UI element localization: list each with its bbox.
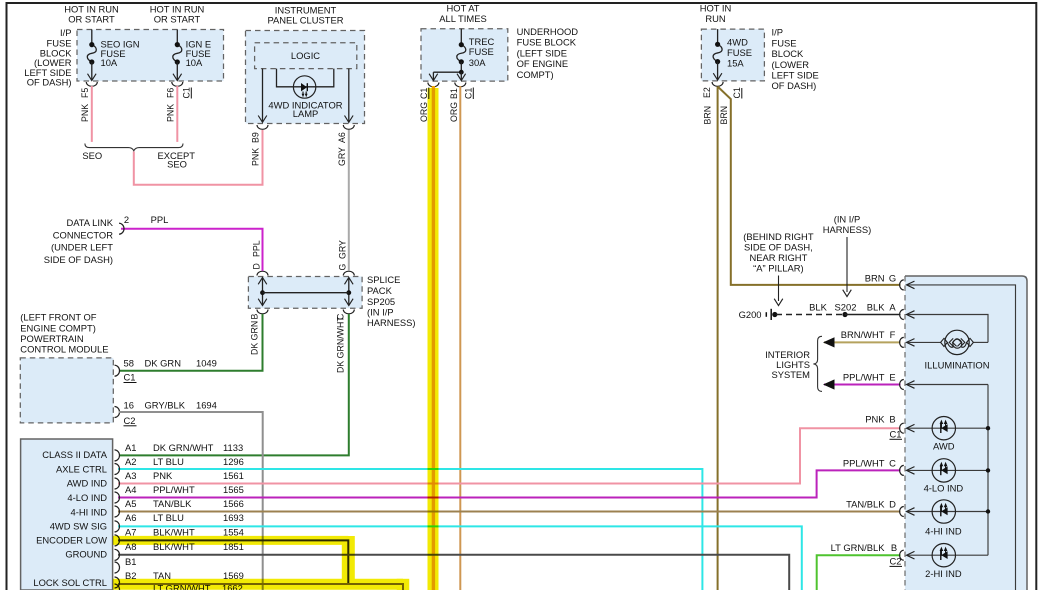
svg-text:D: D (889, 499, 896, 510)
svg-text:FUSE: FUSE (469, 46, 494, 57)
cluster logic output wire right (348, 69, 350, 123)
svg-text:A3: A3 (125, 470, 136, 481)
illumination lamp right lead (973, 341, 988, 343)
connector TCCM bottom pin (115, 584, 120, 590)
wire TAN/BLK A5 to switch D (118, 511, 901, 513)
connector TCCM pin A7 (115, 535, 120, 546)
SP205 connector D (top left) (257, 271, 268, 275)
connector E2/C1 (4WD fuse) (712, 82, 723, 86)
switch connector G (900, 280, 904, 290)
connector pin 2 (DLC) (119, 223, 124, 234)
svg-text:HARNESS): HARNESS) (367, 317, 415, 328)
svg-text:(LEFT FRONT OF: (LEFT FRONT OF (20, 312, 96, 323)
logic box (255, 43, 357, 69)
fuse IGN E 10A (176, 30, 178, 45)
svg-text:LT BLU: LT BLU (153, 456, 184, 467)
svg-text:ORG: ORG (449, 102, 459, 122)
svg-text:GROUND: GROUND (65, 549, 107, 560)
wire BLK/WHT A7 (highlighted) (118, 540, 348, 584)
switch inner wire E chain (907, 384, 988, 386)
svg-text:F5: F5 (80, 88, 90, 98)
svg-text:4-LO IND: 4-LO IND (924, 483, 964, 494)
wire BLK/WHT A8 (ground) (118, 555, 789, 590)
svg-text:1049: 1049 (196, 357, 217, 368)
svg-text:BLK/WHT: BLK/WHT (153, 526, 195, 537)
connector B9 (cluster) (257, 125, 268, 129)
svg-text:BRN: BRN (703, 106, 713, 125)
svg-text:BLK: BLK (809, 301, 827, 312)
fuse TREC 30A (460, 29, 462, 45)
connector C1 (underhood fuse block) (428, 83, 439, 87)
svg-text:PNK: PNK (80, 104, 90, 122)
connector B1/C1 (underhood fuse block) (455, 83, 466, 87)
svg-text:10A: 10A (101, 57, 118, 68)
svg-text:2: 2 (124, 214, 129, 225)
svg-text:OF ENGINE: OF ENGINE (517, 58, 569, 69)
svg-text:I/P: I/P (772, 27, 783, 38)
svg-text:“A” PILLAR): “A” PILLAR) (753, 263, 804, 274)
svg-text:BRN/WHT: BRN/WHT (841, 329, 885, 340)
svg-text:4-HI IND: 4-HI IND (925, 526, 962, 537)
svg-text:OF DASH): OF DASH) (772, 80, 817, 91)
svg-text:G: G (889, 273, 896, 284)
indicator LED AWD (907, 427, 988, 429)
svg-text:LOCK SOL CTRL: LOCK SOL CTRL (33, 577, 107, 588)
switch inner wire A to illumination (907, 315, 988, 343)
switch inner wire G (907, 285, 1016, 590)
instrument panel cluster box (246, 31, 365, 124)
wire LT BLU A6 (4wd sw sig) (118, 526, 802, 590)
SP205 internal node right (348, 278, 350, 306)
svg-text:PPL/WHT: PPL/WHT (153, 484, 195, 495)
ground G200 symbol (765, 312, 767, 317)
svg-text:GRY/BLK: GRY/BLK (145, 399, 186, 410)
splice S202 (842, 312, 847, 317)
wire DK GRN SP205 B to PCM 58 (119, 314, 263, 371)
svg-text:C1: C1 (124, 372, 136, 383)
svg-text:BRN: BRN (719, 106, 729, 125)
svg-text:C2: C2 (890, 555, 902, 566)
svg-text:POWERTRAIN: POWERTRAIN (20, 333, 83, 344)
svg-text:HARNESS): HARNESS) (823, 224, 871, 235)
svg-text:A6: A6 (337, 132, 347, 143)
svg-text:SP205: SP205 (367, 296, 395, 307)
svg-text:CONTROL MODULE: CONTROL MODULE (20, 343, 108, 354)
svg-text:PPL: PPL (252, 240, 262, 257)
svg-text:LT GRN/BLK: LT GRN/BLK (831, 542, 886, 553)
svg-text:C2: C2 (124, 415, 136, 426)
svg-text:COMPT): COMPT) (517, 69, 554, 80)
svg-text:SPLICE: SPLICE (367, 274, 400, 285)
wire BRN/WHT F (interior lights) (824, 341, 901, 343)
svg-text:BLOCK: BLOCK (772, 48, 805, 59)
connector A6 (cluster) (343, 125, 354, 129)
connector TCCM pin B2 (115, 577, 120, 588)
svg-text:HOT IN: HOT IN (700, 3, 732, 14)
svg-text:AWD IND: AWD IND (67, 477, 108, 488)
wire DK GRN/WHT SP205 C to TCCM A1 (119, 314, 349, 455)
svg-text:F6: F6 (166, 88, 176, 98)
svg-text:B1: B1 (125, 556, 136, 567)
wire LT BLU A2 (axle ctrl) (118, 469, 702, 590)
svg-text:(IN I/P: (IN I/P (367, 307, 394, 318)
svg-text:PPL: PPL (151, 214, 169, 225)
svg-text:E2: E2 (702, 87, 712, 98)
svg-text:HOT IN RUN: HOT IN RUN (64, 3, 119, 14)
svg-text:PANEL CLUSTER: PANEL CLUSTER (267, 15, 343, 26)
svg-text:AWD: AWD (933, 441, 955, 452)
pointer arrow to G200 (778, 276, 780, 302)
wire BRN C1 to switch G (718, 87, 901, 285)
connector TCCM pin B1 (115, 562, 120, 573)
4WD indicator lamp LED (293, 76, 315, 98)
svg-text:AXLE CTRL: AXLE CTRL (56, 463, 107, 474)
highlight BLK/WHT 1554 path (113, 536, 403, 590)
svg-text:C1: C1 (182, 87, 192, 98)
svg-text:A: A (889, 301, 896, 312)
svg-text:NEAR RIGHT: NEAR RIGHT (749, 252, 807, 263)
svg-text:A6: A6 (125, 512, 136, 523)
svg-text:LEFT SIDE: LEFT SIDE (772, 69, 819, 80)
pointer arrow to S202 (846, 237, 848, 292)
svg-text:LOGIC: LOGIC (291, 50, 320, 61)
svg-text:UNDERHOOD: UNDERHOOD (517, 26, 579, 37)
svg-text:A5: A5 (125, 498, 136, 509)
wire LT GRN/BLK switch B/C2 (817, 555, 901, 590)
switch connector B/C2 (900, 550, 904, 560)
indicator LED 4-LO IND (907, 469, 988, 471)
svg-text:1133: 1133 (223, 442, 243, 453)
indicator LED 2-HI IND (907, 554, 988, 556)
svg-text:HOT IN RUN: HOT IN RUN (150, 3, 205, 14)
wire PPL/WHT A4 to switch C (118, 470, 901, 497)
switch connector D (900, 507, 904, 517)
svg-text:G: G (338, 264, 348, 271)
svg-text:B: B (889, 413, 895, 424)
svg-text:1693: 1693 (223, 512, 244, 523)
svg-text:DK GRN/WHT: DK GRN/WHT (153, 442, 214, 453)
svg-text:SEO: SEO (82, 150, 102, 161)
svg-text:ENCODER LOW: ENCODER LOW (36, 535, 107, 546)
svg-text:A2: A2 (125, 456, 136, 467)
wire PNK from fuse F5 (91, 86, 93, 142)
switch connector B (900, 423, 904, 433)
SP205 internal node left (262, 278, 264, 306)
connector TCCM pin A2 (115, 464, 120, 475)
wire ORG B1/C1 (459, 86, 461, 590)
switch connector A (900, 310, 904, 320)
svg-text:D: D (252, 263, 262, 269)
svg-text:OR START: OR START (154, 14, 201, 25)
svg-text:4-HI IND: 4-HI IND (71, 506, 108, 517)
svg-text:C1: C1 (732, 87, 742, 98)
svg-text:FUSE: FUSE (772, 37, 797, 48)
svg-text:C1: C1 (464, 88, 474, 99)
svg-text:30A: 30A (469, 57, 486, 68)
svg-text:PNK: PNK (166, 104, 176, 122)
connector PCM pin 58 C1 (115, 365, 120, 376)
brace SEO / EXCEPT SEO (85, 144, 183, 151)
svg-text:1694: 1694 (196, 399, 217, 410)
svg-text:4-LO IND: 4-LO IND (67, 492, 107, 503)
transfer case control module connector box (21, 439, 113, 590)
svg-text:G200: G200 (739, 309, 762, 320)
SP205 connector C (bottom right) (343, 310, 354, 314)
4WD indicator lamp bracket (277, 69, 334, 87)
svg-text:16: 16 (124, 399, 134, 410)
connector F6/C1 (I/P fuse block) (172, 82, 183, 86)
svg-text:FUSE: FUSE (727, 47, 752, 58)
wire PNK to cluster B9 (134, 130, 263, 185)
switch connector E (900, 380, 904, 390)
svg-text:B: B (250, 314, 260, 320)
I/P fuse block box (top left) (77, 30, 224, 82)
wire PPL/WHT E (interior lights) (824, 384, 901, 386)
transfer case shift control switch box (905, 276, 1027, 590)
svg-text:BRN: BRN (865, 273, 885, 284)
svg-text:B: B (891, 542, 897, 553)
svg-text:CONNECTOR: CONNECTOR (53, 229, 113, 240)
svg-text:(UNDER LEFT: (UNDER LEFT (51, 242, 113, 253)
svg-text:15A: 15A (727, 58, 744, 69)
connector PCM pin 16 C2 (115, 407, 120, 418)
underhood fuse block box (421, 29, 508, 81)
indicator LED 4-HI IND (907, 511, 988, 513)
svg-text:B1: B1 (449, 88, 459, 99)
svg-text:SIDE OF DASH,: SIDE OF DASH, (744, 242, 813, 253)
svg-text:PPL/WHT: PPL/WHT (843, 371, 885, 382)
svg-text:A1: A1 (125, 442, 136, 453)
SP205 connector B (bottom left) (257, 310, 268, 314)
svg-text:1565: 1565 (223, 484, 244, 495)
svg-text:HOT AT: HOT AT (447, 3, 480, 14)
illumination lamp (945, 330, 969, 354)
svg-text:OR START: OR START (68, 14, 115, 25)
svg-text:58: 58 (124, 357, 134, 368)
svg-text:GRY: GRY (338, 240, 348, 259)
svg-text:(IN I/P: (IN I/P (834, 213, 861, 224)
svg-text:PPL/WHT: PPL/WHT (843, 457, 885, 468)
svg-text:I/P: I/P (60, 27, 71, 38)
connector TCCM pin A6 (115, 521, 120, 532)
switch inner wire F to illumination (907, 341, 941, 343)
svg-text:DK GRN: DK GRN (250, 321, 260, 355)
arrow interior lights E (823, 379, 835, 389)
SP205 connector G (top right) (343, 271, 354, 275)
svg-text:PNK: PNK (153, 470, 173, 481)
svg-text:PACK: PACK (367, 285, 393, 296)
connector TCCM pin A8 (115, 549, 120, 560)
svg-text:(LEFT SIDE: (LEFT SIDE (517, 47, 567, 58)
wire BLK S202 to switch A (845, 314, 901, 316)
svg-text:LT BLU: LT BLU (153, 512, 184, 523)
svg-text:LAMP: LAMP (293, 108, 319, 119)
svg-text:C: C (889, 457, 896, 468)
svg-text:SIDE OF DASH): SIDE OF DASH) (44, 254, 113, 265)
wire PNK A3 to switch B (118, 428, 901, 483)
svg-text:(BEHIND RIGHT: (BEHIND RIGHT (743, 231, 814, 242)
svg-text:ENGINE COMPT): ENGINE COMPT) (20, 322, 96, 333)
connector TCCM pin A3 (115, 478, 120, 489)
switch LED chain vertical (987, 385, 989, 556)
brace interior lights system (813, 336, 822, 391)
wire PNK from fuse F6 (176, 86, 178, 142)
wire TAN B2 (highlighted) (118, 584, 403, 590)
svg-text:10A: 10A (186, 57, 203, 68)
svg-text:ALL TIMES: ALL TIMES (439, 13, 486, 24)
connector F5 (I/P fuse block) (86, 82, 97, 86)
svg-text:TAN/BLK: TAN/BLK (153, 498, 192, 509)
svg-text:TAN/BLK: TAN/BLK (846, 499, 885, 510)
svg-text:DATA LINK: DATA LINK (66, 217, 113, 228)
svg-text:DK GRN: DK GRN (145, 357, 181, 368)
wire GRY cluster A6 to SP205 G (348, 130, 350, 271)
fuse SEO IGN 10A (91, 30, 93, 45)
switch connector F (900, 337, 904, 347)
svg-text:B9: B9 (251, 132, 261, 143)
svg-text:PNK: PNK (865, 413, 885, 424)
svg-text:E: E (889, 371, 895, 382)
svg-text:A4: A4 (125, 484, 136, 495)
svg-text:PNK: PNK (251, 148, 261, 166)
svg-text:RUN: RUN (705, 13, 725, 24)
highlight ORG wire (428, 88, 439, 590)
svg-text:1566: 1566 (223, 498, 244, 509)
fuse 4WD 15A (717, 29, 719, 44)
svg-text:F: F (890, 329, 896, 340)
svg-text:INSTRUMENT: INSTRUMENT (275, 4, 337, 15)
connector TCCM pin A5 (115, 506, 120, 517)
SP205 internal bus wire (263, 292, 349, 294)
svg-text:OF DASH): OF DASH) (27, 77, 72, 88)
connector TCCM pin A4 (115, 492, 120, 503)
svg-text:1296: 1296 (223, 456, 244, 467)
svg-text:1561: 1561 (223, 470, 244, 481)
svg-text:S202: S202 (835, 301, 857, 312)
svg-text:CLASS II DATA: CLASS II DATA (42, 449, 108, 460)
wire BRN E2 (717, 87, 719, 590)
wire BLK G200 to S202 (dashed) (776, 314, 845, 316)
wire ORG C1 (hot at all times, highlighted) (432, 86, 435, 590)
I/P fuse block box (4WD fuse) (701, 29, 764, 81)
svg-text:SEO: SEO (167, 159, 187, 170)
cluster logic output wire left (262, 69, 264, 123)
svg-text:BLK: BLK (867, 301, 885, 312)
svg-text:2-HI IND: 2-HI IND (925, 568, 962, 579)
wire GRY/BLK PCM 16 (119, 412, 263, 590)
svg-text:FUSE BLOCK: FUSE BLOCK (517, 37, 577, 48)
svg-text:DK GRN/WHT: DK GRN/WHT (336, 316, 346, 373)
powertrain control module box (20, 358, 113, 423)
svg-text:ILLUMINATION: ILLUMINATION (925, 360, 990, 371)
wire PPL data link connector to SP205 D (121, 229, 263, 271)
arrow interior lights F (823, 337, 835, 347)
svg-text:GRY: GRY (337, 147, 347, 166)
switch connector C (900, 465, 904, 475)
splice pack SP205 box (248, 277, 362, 309)
svg-text:1554: 1554 (223, 526, 244, 537)
svg-text:C1: C1 (890, 428, 902, 439)
svg-text:SYSTEM: SYSTEM (771, 369, 810, 380)
svg-text:A7: A7 (125, 526, 136, 537)
svg-text:(LOWER: (LOWER (772, 59, 810, 70)
connector TCCM pin A1 (115, 450, 120, 461)
svg-text:4WD SW SIG: 4WD SW SIG (50, 520, 107, 531)
